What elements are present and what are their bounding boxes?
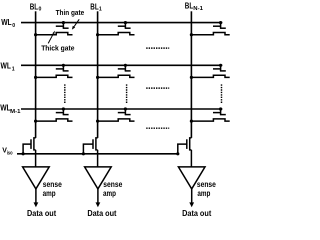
- svg-text:Thick gate: Thick gate: [41, 44, 74, 53]
- svg-text:N-1: N-1: [193, 6, 203, 12]
- Q10 junction dot on word line: [62, 64, 65, 67]
- bit line BLN-1: [190, 11, 192, 138]
- svg-text:amp: amp: [43, 189, 56, 198]
- horizontal ellipsis dots (more columns), row 1: [146, 87, 169, 89]
- M1 gate lead down to V_iso line: [83, 144, 93, 154]
- Q12 junction dot on word line: [219, 64, 222, 67]
- Q12 thick gate bar: [213, 68, 221, 70]
- svg-text:WL: WL: [1, 17, 12, 27]
- svg-text:sense: sense: [43, 180, 62, 189]
- sense amp SA2 triangle: [178, 167, 205, 189]
- Q00 thick gate bar: [56, 25, 64, 27]
- Q10 thin gate bar: [63, 70, 69, 72]
- Q01 thick gate bar: [118, 25, 126, 27]
- wire: M2 source down to sense amp: [190, 150, 192, 167]
- antifuse cell transistor Q10: gate stub to word line: [62, 65, 64, 71]
- Q22 thick gate bar: [213, 112, 221, 114]
- Q02 channel with source/drain steps and floating source tail: [191, 33, 229, 35]
- Q00 channel with source/drain steps and floating source tail: [36, 33, 73, 35]
- Q20 junction dot on word line: [62, 107, 65, 110]
- antifuse cell transistor Q11: gate stub to word line: [124, 65, 126, 71]
- svg-text:Thin gate: Thin gate: [56, 8, 85, 17]
- M2 gate lead down to V_iso line: [178, 144, 187, 154]
- Q11 junction dot on bit line: [96, 76, 99, 79]
- isolation transistor M0: drain lead from bit line: [34, 138, 36, 150]
- wire: M1 source down to sense amp: [97, 150, 99, 167]
- sense amp SA1 triangle: [85, 167, 112, 189]
- Q22 channel with source/drain steps and floating source tail: [191, 119, 229, 121]
- antifuse cell transistor Q20: gate stub to word line: [62, 109, 64, 115]
- Q00 junction dot on bit line: [34, 33, 37, 36]
- Q20 thick gate bar: [56, 112, 64, 114]
- Q12 junction dot on bit line: [190, 76, 193, 79]
- Q11 channel with source/drain steps and floating source tail: [98, 75, 135, 77]
- antifuse cell transistor Q21: gate stub to word line: [124, 109, 126, 115]
- Q02 junction dot on bit line: [190, 33, 193, 36]
- annotation arrow to thick gate: [48, 34, 53, 44]
- isolation transistor M2: drain lead from bit line: [190, 138, 192, 150]
- SA1 output arrow to Data out: [97, 189, 99, 203]
- bit line BL0: [35, 11, 37, 138]
- word line WLM-1: [21, 108, 222, 110]
- Q20 thin gate bar: [63, 114, 69, 116]
- Q00 junction dot on word line: [62, 21, 65, 24]
- Q12 thin gate bar: [220, 70, 226, 72]
- isolation transistor M1: drain lead from bit line: [96, 138, 98, 150]
- vertical ellipsis dots (more rows), column 1: [126, 84, 128, 104]
- Q01 junction dot on word line: [124, 21, 127, 24]
- Q21 thin gate bar: [125, 114, 131, 116]
- Q01 channel with source/drain steps and floating source tail: [98, 33, 135, 35]
- sense amp SA0 triangle: [23, 167, 50, 189]
- svg-text:1: 1: [12, 67, 15, 73]
- M1 channel bar is part of above; gate bar: [92, 139, 94, 149]
- svg-text:BL: BL: [90, 2, 98, 11]
- bit line BL1: [97, 11, 99, 138]
- svg-text:sense: sense: [197, 180, 216, 189]
- Q11 thick gate bar: [118, 68, 126, 70]
- svg-text:Data out: Data out: [87, 208, 116, 218]
- Q21 junction dot on word line: [124, 107, 127, 110]
- M2 junction dot on V_iso line: [176, 152, 179, 155]
- svg-text:Data out: Data out: [182, 208, 211, 218]
- Q10 channel with source/drain steps and floating source tail: [36, 75, 73, 77]
- horizontal ellipsis dots (more columns), row 0: [146, 47, 169, 49]
- Q12 channel with source/drain steps and floating source tail: [191, 75, 229, 77]
- Q21 thick gate bar: [118, 112, 126, 114]
- SA0 output arrow to Data out: [35, 189, 37, 203]
- Q22 junction dot on bit line: [190, 120, 193, 123]
- annotation arrow to thin gate: [74, 19, 79, 26]
- Q10 thick gate bar: [56, 68, 64, 70]
- svg-text:BL: BL: [185, 2, 193, 11]
- wire: M0 source down to sense amp: [35, 150, 37, 167]
- antifuse cell transistor Q22: gate stub to word line: [220, 109, 222, 115]
- svg-text:sense: sense: [103, 180, 122, 189]
- svg-text:Data out: Data out: [27, 208, 56, 218]
- Q20 junction dot on bit line: [34, 120, 37, 123]
- Q11 thin gate bar: [125, 70, 131, 72]
- Q21 junction dot on bit line: [96, 120, 99, 123]
- antifuse cell transistor Q00: gate stub to word line: [62, 23, 64, 29]
- vertical ellipsis dots (more rows), column 2: [221, 84, 223, 104]
- word line WL0: [21, 22, 222, 24]
- svg-text:0: 0: [39, 7, 42, 13]
- Q10 junction dot on bit line: [34, 76, 37, 79]
- V_iso control line: [17, 153, 178, 155]
- Q02 thick gate bar: [213, 25, 221, 27]
- Q01 thin gate bar: [125, 27, 131, 29]
- antifuse cell transistor Q12: gate stub to word line: [220, 65, 222, 71]
- svg-text:0: 0: [12, 23, 15, 29]
- svg-text:amp: amp: [197, 189, 210, 198]
- vertical ellipsis dots (more rows), column 0: [64, 84, 66, 104]
- Q02 junction dot on word line: [219, 21, 222, 24]
- horizontal ellipsis dots (more columns), row M-1: [146, 127, 169, 129]
- M0 gate lead down to V_iso line: [23, 144, 31, 154]
- svg-text:WL: WL: [1, 61, 12, 71]
- word line WL1: [21, 64, 222, 66]
- M1 junction dot on V_iso line: [82, 152, 85, 155]
- antifuse cell transistor Q01: gate stub to word line: [124, 23, 126, 29]
- Q01 junction dot on bit line: [96, 33, 99, 36]
- Q21 channel with source/drain steps and floating source tail: [98, 119, 135, 121]
- Q22 thin gate bar: [220, 114, 226, 116]
- svg-text:M-1: M-1: [10, 109, 20, 115]
- svg-text:iso: iso: [7, 151, 13, 157]
- svg-text:amp: amp: [103, 189, 116, 198]
- M2 channel bar is part of above; gate bar: [186, 139, 188, 149]
- SA2 output arrow to Data out: [191, 189, 193, 203]
- Q00 thin gate bar: [63, 27, 69, 29]
- svg-text:1: 1: [99, 7, 102, 13]
- antifuse cell transistor Q02: gate stub to word line: [220, 23, 222, 29]
- M0 junction dot on V_iso line: [22, 152, 25, 155]
- Q20 channel with source/drain steps and floating source tail: [36, 119, 73, 121]
- Q22 junction dot on word line: [219, 107, 222, 110]
- M0 channel bar is part of above; gate bar: [30, 139, 32, 149]
- Q11 junction dot on word line: [124, 64, 127, 67]
- svg-text:BL: BL: [30, 2, 38, 11]
- Q02 thin gate bar: [220, 27, 226, 29]
